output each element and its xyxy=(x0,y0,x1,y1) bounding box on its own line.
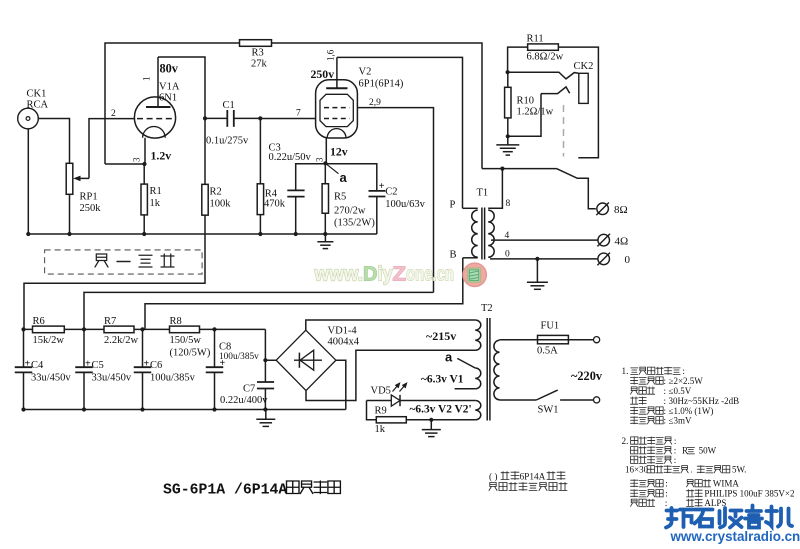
fuse FU1 0.5A xyxy=(500,321,594,357)
svg-text:+: + xyxy=(379,181,385,192)
transformer T1 core xyxy=(481,208,483,260)
svg-text:250v: 250v xyxy=(311,67,335,81)
note: values in () are for 6P14A xyxy=(489,472,567,491)
potentiometer RP1 250k xyxy=(66,163,101,214)
ground symbol power supply xyxy=(256,410,275,427)
node C1 / R4 / V2 grid junction xyxy=(258,116,262,120)
dashed box: other channel (另一声道) xyxy=(45,250,203,274)
svg-text:R10: R10 xyxy=(517,96,535,107)
pentode V2 6P1/6P14 xyxy=(316,57,358,163)
wire ring contact to ground node xyxy=(508,94,541,137)
ground bus of power supply xyxy=(24,409,346,411)
capacitor C4 33u/450v xyxy=(15,329,72,409)
svg-text:one.cn: one.cn xyxy=(406,264,454,286)
site logo kuangshi shouyinji (blue) xyxy=(666,506,792,528)
svg-text:1: 1 xyxy=(142,77,152,82)
wire R2 top lead xyxy=(204,118,206,184)
svg-text:30Hz~55KHz -2dB: 30Hz~55KHz -2dB xyxy=(669,396,740,406)
node R10 bottom / contact return xyxy=(506,134,510,138)
svg-text:C2: C2 xyxy=(385,187,397,198)
svg-text:7: 7 xyxy=(296,109,301,119)
svg-text:150/5w: 150/5w xyxy=(170,335,202,346)
pointer line to node a xyxy=(325,163,338,173)
svg-text:0.22u/400v: 0.22u/400v xyxy=(220,395,268,406)
svg-text:R1: R1 xyxy=(150,186,162,197)
svg-text:1.2v: 1.2v xyxy=(151,149,172,163)
text another-channel inside dashed box xyxy=(95,254,174,267)
wire V2 screen pins 2,9 to screen supply xyxy=(357,108,433,293)
T1 primary winding xyxy=(463,208,478,257)
svg-text:PHILIPS 100uF 385V×2: PHILIPS 100uF 385V×2 xyxy=(704,489,794,499)
title SG-6P1A / 6P14A schematic xyxy=(163,481,340,499)
svg-text:2: 2 xyxy=(111,109,116,119)
T2 primary winding 220v xyxy=(494,340,500,400)
resistor R4 470k (V2 grid leak) xyxy=(257,184,286,215)
headphone jack CK2 ring contact xyxy=(541,87,570,94)
svg-text:0: 0 xyxy=(505,250,510,260)
tech spec text block xyxy=(622,366,795,508)
svg-text:≤0.5V: ≤0.5V xyxy=(669,386,692,396)
svg-text:VD5: VD5 xyxy=(371,386,391,397)
resistor R8 150/5w xyxy=(170,316,211,359)
svg-text:0.1u/275v: 0.1u/275v xyxy=(206,136,249,147)
node 8 tap to select wire xyxy=(500,167,504,171)
headphone jack CK2 plug body xyxy=(579,73,588,103)
terminal 220v line xyxy=(594,337,600,343)
wire bridge AC top to T2 215v winding top xyxy=(306,320,475,330)
svg-text:www.: www. xyxy=(314,264,363,286)
wire R1 leads xyxy=(143,164,145,184)
svg-text:~6.3v V1: ~6.3v V1 xyxy=(421,374,464,386)
capacitor C3 0.22u/50v (V2 cathode bypass) xyxy=(269,143,326,235)
svg-text::: : xyxy=(674,436,677,446)
ground symbol heater winding xyxy=(422,420,441,437)
bridge rectifier VD1-4 4004x4 xyxy=(276,326,360,391)
svg-text::: : xyxy=(664,406,667,416)
svg-text:0.5A: 0.5A xyxy=(537,346,558,357)
svg-text::: : xyxy=(664,386,667,396)
svg-text:5W.: 5W. xyxy=(732,465,746,475)
svg-text:~220v: ~220v xyxy=(571,369,603,383)
svg-text:Z: Z xyxy=(393,264,407,286)
svg-text:CK2: CK2 xyxy=(574,61,594,72)
svg-text:www.crystalradio.cn: www.crystalradio.cn xyxy=(670,529,800,544)
wire CK1 sleeve to ground bus xyxy=(27,129,29,234)
svg-text:+: + xyxy=(144,359,150,370)
svg-text:100u/385v: 100u/385v xyxy=(150,373,196,384)
svg-text:100k: 100k xyxy=(210,199,232,210)
wire bridge AC bottom to T2 215v winding bottom xyxy=(306,350,475,400)
svg-text:SG-6P1A /6P14A: SG-6P1A /6P14A xyxy=(163,483,287,499)
capacitor C8 100u/385v xyxy=(206,329,259,409)
svg-text:+: + xyxy=(85,359,91,370)
wire 8 tap xyxy=(488,169,502,209)
ground symbol under R5 xyxy=(317,234,333,249)
svg-text:SW1: SW1 xyxy=(538,405,559,416)
svg-text:33u/450v: 33u/450v xyxy=(92,373,132,384)
resistor R5 270/2w (V2 cathode) xyxy=(322,184,375,229)
svg-text:6P14A: 6P14A xyxy=(520,473,546,483)
terminal 4 ohm xyxy=(598,234,610,246)
svg-text:( ): ( ) xyxy=(489,472,498,483)
wire R5 leads xyxy=(324,163,326,184)
node bridge + output xyxy=(263,358,267,362)
wire bus to bridge + output xyxy=(265,329,276,360)
svg-text:33u/450v: 33u/450v xyxy=(31,373,71,384)
svg-text:FU1: FU1 xyxy=(541,321,560,332)
svg-text:470k: 470k xyxy=(264,199,286,210)
node 0 tap ground xyxy=(535,257,539,261)
svg-text:RP1: RP1 xyxy=(80,192,98,203)
svg-text:≤3mV: ≤3mV xyxy=(669,416,692,426)
svg-text:P: P xyxy=(450,200,456,211)
capacitor C6 100u/385v xyxy=(134,329,196,409)
svg-text:C6: C6 xyxy=(150,360,162,371)
svg-text:.: . xyxy=(690,466,692,475)
svg-text:0.22u/50v: 0.22u/50v xyxy=(269,152,312,163)
LED VD5 with R9 on 6.3v V2 winding xyxy=(367,383,476,406)
watermark www.DiyZone.cn xyxy=(314,264,454,286)
wire CK1 tip to RP1 top xyxy=(38,119,69,164)
svg-text:27k: 27k xyxy=(251,59,268,70)
wire R11 left to node xyxy=(508,47,528,72)
svg-text:≥2×2.5W: ≥2×2.5W xyxy=(669,376,704,386)
svg-text:4Ω: 4Ω xyxy=(615,236,629,248)
wire R11 right to break contact xyxy=(558,47,598,158)
svg-text:VD1-4: VD1-4 xyxy=(328,326,358,337)
svg-text:R3: R3 xyxy=(252,48,264,59)
svg-text:3: 3 xyxy=(315,157,325,162)
svg-text:100u/63v: 100u/63v xyxy=(385,199,425,210)
svg-text:+: + xyxy=(25,359,31,370)
node R10/R11/jack tip xyxy=(506,70,510,74)
transformer T2 core xyxy=(486,318,488,421)
capacitor C2 100u/63v (cathode bypass) xyxy=(325,164,425,234)
wire R10 leads xyxy=(507,72,509,87)
node V1A cathode / R1 junction xyxy=(142,162,146,166)
resistor R7 2.2k/2w xyxy=(104,316,139,346)
svg-text:6.8Ω/2w: 6.8Ω/2w xyxy=(527,52,564,63)
svg-text:1.: 1. xyxy=(622,366,629,376)
svg-text:R8: R8 xyxy=(170,316,182,327)
svg-text:2.: 2. xyxy=(622,436,629,446)
wire RP1 bottom to ground bus xyxy=(69,194,71,234)
svg-text:16×30: 16×30 xyxy=(625,465,649,475)
svg-text:a: a xyxy=(340,170,348,185)
svg-text:V1A: V1A xyxy=(159,82,180,93)
ground symbol 0 tap xyxy=(527,259,548,289)
svg-text:R7: R7 xyxy=(104,316,116,327)
svg-text:12v: 12v xyxy=(330,145,348,159)
B+ filter bus xyxy=(24,328,266,330)
svg-text:R6: R6 xyxy=(33,316,45,327)
svg-text:R2: R2 xyxy=(210,187,222,198)
wire 0 tap xyxy=(490,258,598,260)
svg-text:T1: T1 xyxy=(477,188,489,199)
svg-text:C4: C4 xyxy=(31,360,44,371)
svg-text::: : xyxy=(682,366,685,376)
speaker select wire with headphone break contact xyxy=(482,168,557,170)
svg-text:1k: 1k xyxy=(150,198,161,209)
resistor R10 1.2ohm/1w xyxy=(505,87,554,118)
resistor R1 1k (V1A cathode) xyxy=(141,184,162,215)
feedback wire from 8-ohm tap through R3 to V1A cathode xyxy=(105,43,240,164)
headphone jack CK2 tip contact xyxy=(508,72,579,79)
svg-text:CK1: CK1 xyxy=(27,89,47,100)
svg-text:270/2w: 270/2w xyxy=(334,206,366,217)
svg-text::: : xyxy=(665,479,668,489)
svg-text:1k: 1k xyxy=(375,424,386,435)
T1 secondary winding xyxy=(488,210,494,257)
svg-text:2.2k/2w: 2.2k/2w xyxy=(104,335,139,346)
svg-text:R11: R11 xyxy=(527,34,544,45)
svg-text:(135/2W): (135/2W) xyxy=(334,218,375,229)
capacitor C1 0.1u/275v coupling xyxy=(205,100,260,147)
wire B+ from R7/R8 node to T1 primary B xyxy=(145,258,463,330)
svg-text:15k/2w: 15k/2w xyxy=(33,335,65,346)
capacitor C5 33u/450v xyxy=(75,329,132,409)
wire V2 plate to T1 primary P xyxy=(337,57,463,208)
svg-text:~215v: ~215v xyxy=(426,329,456,343)
switch SW1 xyxy=(500,390,594,415)
svg-text:a: a xyxy=(445,350,453,365)
capacitor C7 0.22u/400v xyxy=(220,360,274,409)
svg-text:ALPS: ALPS xyxy=(704,498,726,508)
svg-text:~6.3v V2 V2': ~6.3v V2 V2' xyxy=(410,404,472,416)
T2 winding 6.3v V1 heater xyxy=(455,358,481,388)
svg-text:(120/5W): (120/5W) xyxy=(170,348,211,359)
svg-text:WIMA: WIMA xyxy=(713,479,739,489)
T2 winding 215v secondary xyxy=(475,320,481,350)
svg-text:D: D xyxy=(363,264,378,286)
svg-text:C8: C8 xyxy=(219,342,231,353)
svg-text:50W: 50W xyxy=(699,446,717,456)
connector CK1 RCA input jack xyxy=(18,89,49,129)
svg-text::: : xyxy=(664,376,667,386)
svg-text:C7: C7 xyxy=(243,384,255,395)
terminal 8 ohm xyxy=(597,203,609,215)
wire C1 node to V2 grid pin 7 xyxy=(260,118,315,120)
svg-text::: : xyxy=(665,489,668,499)
svg-text:250k: 250k xyxy=(80,203,102,214)
svg-text:B: B xyxy=(450,250,457,261)
resistor R9 1k xyxy=(367,401,476,436)
node heater winding ground xyxy=(429,418,433,422)
svg-text:6N1: 6N1 xyxy=(159,93,177,104)
wire RP1 wiper to V1A grid xyxy=(89,119,134,179)
svg-text:T2: T2 xyxy=(481,303,493,314)
svg-text::: : xyxy=(674,455,677,465)
svg-text:6P1(6P14): 6P1(6P14) xyxy=(359,79,404,90)
node V2 cathode junction a xyxy=(323,161,327,165)
svg-text:iy: iy xyxy=(378,264,394,286)
svg-text:2,9: 2,9 xyxy=(369,98,381,108)
svg-text:C1: C1 xyxy=(223,100,235,111)
wire bridge - output to ground bus xyxy=(336,360,346,409)
svg-text:C5: C5 xyxy=(92,360,104,371)
wire R2 bottom to B+ node (crosses ground bus) xyxy=(24,215,205,329)
T2 winding 6.3v V2 heater xyxy=(475,401,481,420)
svg-text:1,6: 1,6 xyxy=(326,49,336,61)
svg-text::: : xyxy=(665,498,668,508)
svg-text:1.2Ω/1w: 1.2Ω/1w xyxy=(517,107,554,118)
resistor R3 27k (feedback) xyxy=(240,40,272,70)
resistor R2 100k (V1A plate load) xyxy=(202,184,231,215)
wire 4 tap xyxy=(491,239,598,241)
svg-text:8Ω: 8Ω xyxy=(614,204,628,216)
wire screen supply from R6/R7 node to V2 screen xyxy=(84,292,434,329)
wire R4 leads xyxy=(259,118,261,183)
svg-text::: : xyxy=(664,416,667,426)
svg-text:0: 0 xyxy=(625,254,631,266)
svg-text:V2: V2 xyxy=(359,67,372,78)
svg-text:+: + xyxy=(220,358,226,369)
svg-text:4: 4 xyxy=(505,231,510,241)
resistor R11 6.8ohm/2w xyxy=(527,34,564,63)
svg-text:RCA: RCA xyxy=(27,100,49,111)
wire feedback to cathode node xyxy=(105,163,145,165)
ground bus of amplifier stage xyxy=(28,233,377,235)
wire V1A plate to C1/R2 node xyxy=(158,57,205,118)
svg-text:8: 8 xyxy=(506,199,511,209)
ground symbol under R10 xyxy=(496,136,519,155)
svg-text::: : xyxy=(674,446,677,456)
svg-text:≤1.0% (1W): ≤1.0% (1W) xyxy=(669,406,714,416)
node V1A plate / R2 / C1 junction xyxy=(203,116,207,120)
svg-text:80v: 80v xyxy=(160,62,179,76)
svg-text:R5: R5 xyxy=(334,192,346,203)
red stamp xyxy=(463,263,486,286)
svg-text:R9: R9 xyxy=(375,406,387,417)
resistor R6 15k/2w xyxy=(33,316,65,346)
mechanical link dashed line xyxy=(563,105,565,157)
triode V1A 6N1 xyxy=(134,57,175,164)
svg-text:3: 3 xyxy=(132,157,142,162)
terminal 0 xyxy=(598,253,610,265)
svg-text:4004x4: 4004x4 xyxy=(328,337,360,348)
svg-text::: : xyxy=(664,396,667,406)
terminal 220v neutral xyxy=(594,397,600,403)
